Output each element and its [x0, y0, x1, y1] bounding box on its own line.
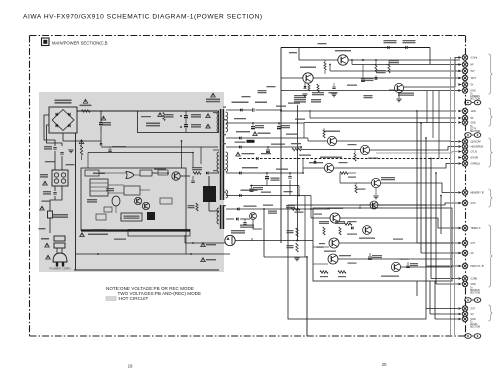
resistor R573 bottom	[320, 271, 328, 274]
wire bundle vertical 1	[416, 111, 418, 243]
label primary L501b	[66, 164, 75, 165]
label Q554 pins	[348, 144, 357, 145]
label left caps	[242, 96, 251, 97]
section label box	[42, 38, 50, 46]
label Q565 KTC4278	[398, 93, 414, 94]
rail gnd wire	[226, 208, 330, 210]
wire line filter feed A	[54, 151, 56, 170]
connector pin 5V	[458, 83, 461, 86]
frame border right	[465, 36, 467, 337]
label top rail C	[289, 52, 297, 53]
wire bottom box internal	[313, 246, 329, 248]
resistor R555	[292, 148, 301, 151]
connector pin CTL'B	[458, 150, 461, 153]
label pin 9	[223, 107, 226, 108]
rail pin9 continue	[256, 109, 281, 111]
wire bundle vertical 6	[440, 196, 442, 235]
svg-text:5V: 5V	[471, 85, 474, 87]
transistor Q560	[324, 163, 333, 172]
label aux parts	[240, 225, 254, 226]
inner box timer section	[313, 208, 452, 281]
aux cap C570	[244, 219, 246, 222]
connector pin GV	[458, 313, 461, 316]
label PW01	[41, 238, 49, 240]
svg-text:PWR CTL 'B': PWR CTL 'B'	[471, 266, 485, 268]
top rail wire	[281, 47, 430, 49]
wire Q551 collector	[281, 77, 303, 79]
wire mid bus 1	[307, 138, 309, 141]
label snubber D551	[146, 123, 160, 125]
pin group brace 1	[489, 54, 493, 94]
diode D561 top rail	[387, 46, 389, 49]
wire photocoupler to secondary	[235, 240, 252, 242]
transistor Q573	[391, 262, 400, 271]
label C555 10/16R4	[271, 144, 285, 145]
winding box gnd	[310, 196, 312, 210]
wire branch down C506	[100, 111, 102, 122]
label D565 PL/PV-LT	[232, 102, 249, 104]
wire control inner extra	[108, 192, 124, 194]
label Q562 KTC3203	[327, 208, 343, 209]
label FR01 T1.6A250V	[52, 214, 68, 216]
comb vertical b	[432, 91, 434, 138]
wire mid vertical d	[304, 196, 306, 258]
diode D562 top rail	[405, 46, 407, 49]
wire bundle vertical 2	[420, 123, 422, 253]
resistor R561	[375, 64, 377, 73]
aux transistor Q506	[250, 213, 257, 220]
label Q551	[300, 67, 316, 68]
dark component	[147, 212, 155, 220]
label rail5 parts2	[284, 191, 293, 192]
wire q559 emitter gvs	[378, 203, 458, 205]
label Q560	[309, 162, 323, 163]
label R559	[347, 85, 357, 86]
label Q570 pins	[319, 243, 325, 244]
label Q560 pins	[339, 162, 348, 163]
wire FET source	[208, 202, 210, 211]
frame border top	[30, 35, 466, 37]
transistor Q551	[303, 73, 313, 83]
label D501	[55, 100, 72, 102]
svg-text:GVT: GVT	[471, 309, 476, 311]
svg-text:GND: GND	[471, 319, 476, 321]
svg-text::HOT CIRCUIT: :HOT CIRCUIT	[118, 296, 149, 301]
svg-text:33VT: 33VT	[471, 78, 477, 80]
capacitor C552 snubber	[184, 115, 188, 117]
zener D564	[313, 161, 316, 163]
wire q571 emitter	[338, 258, 452, 260]
label D568	[244, 206, 257, 207]
board connector ovals 5	[465, 298, 472, 303]
connector pin GND	[458, 89, 461, 92]
wire secondary mid vertical	[297, 105, 299, 241]
label pin 10	[223, 169, 226, 170]
ground Q551 base	[302, 93, 307, 95]
wire 5.2Vtb drop	[429, 63, 431, 65]
svg-text:MEMORY 'B': MEMORY 'B'	[471, 193, 485, 195]
wire bundle vertical 5	[435, 173, 437, 284]
ground frame primary	[68, 149, 73, 151]
capacitor C563	[362, 64, 364, 78]
outer box audio section	[288, 205, 426, 319]
svg-text:20: 20	[382, 362, 387, 367]
wire secondary rail box	[138, 111, 219, 133]
transistor Q559	[370, 201, 378, 209]
label C5xx 74.5B	[286, 205, 295, 206]
label box Q573	[393, 239, 403, 240]
warning triangle PW01	[45, 243, 50, 247]
resistor R551	[317, 84, 319, 92]
label C510 400V	[112, 146, 126, 147]
transistor Q562	[330, 213, 340, 223]
wire HV rail horizontal	[76, 140, 102, 142]
wire bottom long vertical	[306, 257, 308, 336]
misc control parts	[87, 199, 97, 200]
resistor R511 source	[196, 203, 198, 211]
svg-text:GV: GV	[471, 314, 475, 316]
connector pin (TAPE)(-)	[458, 162, 461, 165]
ground R572	[294, 257, 299, 259]
label primary C503	[45, 161, 55, 162]
wire sensor pins	[416, 281, 418, 296]
wire bridge output	[77, 110, 219, 112]
label C504	[43, 191, 51, 192]
label Q554 part2	[368, 158, 378, 159]
pin group brace 2	[489, 108, 493, 126]
wire filter to fuse	[50, 186, 62, 211]
wire q561 base drop	[375, 188, 377, 195]
transistor Q570	[329, 238, 339, 248]
resistor R558	[354, 153, 356, 161]
diode D565	[240, 108, 242, 111]
svg-text:GND: GND	[471, 123, 476, 125]
warning triangle C557	[236, 152, 241, 156]
wire r571 tap	[296, 240, 298, 242]
winding box 12-10	[302, 159, 304, 174]
label control under1	[114, 239, 126, 240]
wire line filter feed B	[61, 156, 63, 170]
warning triangle C556	[253, 132, 258, 136]
capacitor C506	[99, 122, 103, 124]
comb vertical c	[438, 91, 440, 159]
label D554 base parts	[294, 95, 306, 96]
wire Q565 emitter to pin	[404, 58, 460, 87]
resistor R572	[296, 243, 298, 252]
wire control right vertical 3	[200, 147, 202, 164]
node snubber	[180, 115, 182, 117]
label Q559 part	[314, 214, 322, 215]
transformer primary pins	[213, 149, 219, 151]
connector pin (F)V(P)	[458, 156, 461, 159]
capacitor C510	[192, 176, 194, 180]
connector pin GND	[458, 283, 461, 286]
warning triangle T501	[211, 93, 216, 97]
resistor R551b	[308, 84, 310, 91]
vertical resistor R503	[158, 113, 163, 117]
wire bundle vertical 3	[425, 138, 427, 266]
wire Q562 collector	[311, 217, 330, 219]
label C554	[329, 92, 338, 93]
diode D555	[239, 145, 241, 148]
gray cable vertical 1	[450, 57, 452, 335]
transistor Q552	[338, 55, 348, 65]
label R565	[389, 60, 399, 61]
label transformer pin2	[213, 170, 217, 171]
label rail10 parts	[276, 169, 288, 170]
label C552	[191, 114, 201, 115]
wire rail10 cap drop a	[266, 180, 268, 186]
diode D559	[239, 171, 241, 174]
logic box A	[140, 170, 152, 176]
transformer aux winding	[217, 208, 219, 212]
wire control right vertical 2	[192, 153, 194, 169]
winding box 11-7	[303, 123, 305, 138]
connector pin 12VA	[458, 110, 461, 113]
label rail3 parts	[263, 205, 273, 206]
wire Q565 base	[389, 89, 394, 91]
label C515 AF CIRCUIT	[80, 233, 85, 237]
wire q573 emitter	[401, 266, 452, 268]
label rail9 parts	[276, 106, 286, 107]
wire control top feed	[100, 130, 102, 143]
dashed rail (two-voltage)	[239, 158, 450, 160]
wire Q551 emitter	[313, 77, 460, 79]
label Q572 NEC4558	[359, 238, 375, 239]
transistor Q553	[327, 136, 336, 145]
resistor R565	[388, 64, 390, 73]
wire bridge AC input left	[44, 115, 55, 146]
rail pin9 wire	[226, 109, 252, 111]
wire Q562 emitter	[340, 218, 458, 228]
connector pin TIMER 'A'	[458, 227, 461, 230]
warning triangle R502	[83, 99, 88, 103]
label pin 3	[223, 205, 226, 206]
note hot circuit swatch	[106, 297, 116, 301]
label rail9 parts2	[288, 103, 300, 104]
wire control bottom rail	[76, 253, 194, 255]
wire control internal 1	[99, 172, 126, 174]
wire aux bottom	[193, 253, 230, 255]
wire NF2 line	[310, 117, 456, 119]
warning triangle plug	[46, 255, 51, 259]
wire control internal 2	[152, 172, 168, 174]
label rail11 parts	[234, 118, 246, 119]
svg-text:AIWA HV-FX970/GX910 SCHEMATIC: AIWA HV-FX970/GX910 SCHEMATIC DIAGRAM-1(…	[23, 14, 263, 21]
label pin 12	[223, 143, 226, 144]
label rail12 parts	[235, 142, 246, 143]
capacitor C501 across line	[53, 147, 56, 149]
wire fuse to inlet	[49, 218, 51, 233]
control block outline IC501	[81, 168, 186, 230]
wire audio pins 3	[435, 318, 458, 320]
label box Q572	[347, 234, 357, 235]
wire Q552 emitter	[348, 59, 460, 61]
pin group brace 6	[489, 305, 493, 321]
svg-text:GVT: GVT	[471, 243, 476, 245]
svg-text:MAIN/POWER SECTION(C.B: MAIN/POWER SECTION(C.B	[52, 41, 108, 46]
label D562	[403, 40, 416, 41]
label C5xx bottom	[268, 211, 277, 212]
warning triangle L501	[43, 181, 48, 185]
resistor R568	[291, 208, 300, 211]
label R566	[377, 70, 386, 71]
svg-text:GND: GND	[471, 91, 476, 93]
svg-text:(4)5VDRUM: (4)5VDRUM	[471, 147, 484, 149]
transistor Q503 driver	[172, 172, 180, 180]
svg-text:(F)V(P): (F)V(P)	[471, 158, 479, 160]
series capacitor C565	[251, 108, 253, 111]
rail mid wire	[250, 185, 299, 187]
connector pin (2)5VCAP	[458, 140, 461, 143]
board connector ovals 1	[465, 100, 472, 105]
label R553	[311, 99, 321, 100]
label Q561 C562	[381, 177, 395, 178]
zener D554	[303, 86, 306, 88]
connector pin 5.2Vtb	[458, 56, 461, 59]
junction dots rails	[252, 122, 254, 124]
wire control bottom rail 2	[185, 230, 187, 254]
label PC501	[231, 230, 245, 231]
photocoupler PC501	[225, 235, 235, 245]
label Q554 KTC4407Y	[320, 157, 342, 158]
label rail12 parts2	[291, 143, 301, 144]
left secondary bus	[280, 48, 282, 244]
warning triangle C506	[101, 116, 106, 120]
connector pin MEMORY 'B'	[458, 191, 461, 194]
label IC501	[93, 173, 105, 175]
wire Q560 collector	[303, 167, 324, 169]
capacitor C562 rail	[278, 123, 280, 126]
photo junction	[167, 172, 169, 174]
connector pin NF	[458, 117, 461, 120]
label rail5 parts	[261, 192, 271, 193]
wire Q552 collector	[299, 59, 338, 61]
label C553	[191, 124, 201, 125]
diode D556	[239, 136, 241, 139]
label rail3 parts2	[295, 212, 304, 213]
label Q571 C571	[339, 255, 351, 256]
wire photocoupler line	[252, 240, 313, 242]
rail pin12 wire	[226, 146, 302, 148]
wire Q553 emitter	[337, 140, 450, 142]
label box Q571 part	[348, 263, 357, 264]
label dashed rail parts	[299, 155, 311, 156]
transistor Q571	[328, 254, 338, 264]
wire q559 collector	[330, 208, 366, 210]
wire bundle vertical 4	[430, 159, 432, 279]
svg-text:CDTV: CDTV	[470, 129, 477, 131]
wire Q554 emitter	[370, 147, 458, 151]
aux wire down	[253, 219, 262, 229]
wire primary return	[209, 171, 219, 173]
capacitor C561 rail	[252, 123, 254, 126]
label D561	[384, 40, 397, 41]
connector pin GND	[458, 318, 461, 321]
wire ctl line	[376, 152, 458, 154]
label rail7 parts	[286, 134, 298, 135]
resistor R552 base	[324, 62, 326, 70]
wire primary HV rail down	[75, 133, 77, 270]
label DR505	[154, 169, 166, 170]
resistor R571	[296, 228, 298, 237]
connector pin PWR CTL 'B'	[458, 265, 461, 268]
label D560 PL/GFU6BL	[241, 190, 258, 191]
label D556	[236, 131, 250, 132]
diode D571	[351, 226, 353, 229]
wire audio pins 2	[430, 313, 458, 315]
label rail11 parts2	[295, 119, 305, 120]
wire audio pins 1	[426, 308, 458, 310]
timer latch box	[121, 213, 142, 221]
diode D563	[374, 77, 377, 79]
wire Q565 collector	[398, 93, 400, 98]
capacitor C555 big	[267, 147, 269, 149]
comb vertical a	[426, 91, 428, 123]
board connector ovals 6	[465, 334, 472, 339]
or gate	[126, 172, 134, 179]
wire snubber return	[101, 146, 218, 148]
svg-text:CTL'B: CTL'B	[471, 152, 478, 154]
label snubber extra	[141, 116, 151, 117]
label T501	[206, 99, 220, 101]
wire driver to FET	[180, 175, 190, 177]
converter block bottom edge	[74, 269, 219, 271]
comparator stack IC501	[90, 179, 108, 196]
connector pin GVT	[458, 307, 461, 310]
label CN571	[324, 251, 336, 252]
pin group brace 4	[489, 189, 493, 207]
wire aux feedback	[185, 242, 226, 244]
control block bottom heavy line	[81, 229, 190, 231]
svg-text:GND: GND	[471, 284, 476, 286]
wire rail10 cap drop b	[289, 180, 291, 196]
label C561 column b	[267, 86, 276, 87]
capacitor C573	[407, 262, 409, 265]
inlet block PW01 upper	[54, 236, 65, 241]
wire 5V line	[281, 90, 460, 92]
capacitor C572	[369, 253, 371, 256]
label R571	[287, 230, 294, 231]
resistor R564 base	[344, 223, 352, 226]
warning triangle aux2	[201, 258, 206, 262]
fusible resistor R502	[82, 110, 91, 113]
connector pin GVS	[458, 202, 461, 205]
label R572	[287, 245, 294, 246]
wire rail12 to Q554	[301, 149, 361, 151]
svg-text:TWO VOLTAGES:PB AND-(REC) MODE: TWO VOLTAGES:PB AND-(REC) MODE	[118, 291, 202, 296]
warning triangle snubber	[206, 114, 211, 118]
connector pin NF	[458, 63, 461, 66]
diode D557 on dashed rail	[256, 157, 258, 160]
label box Q570 pin	[317, 247, 324, 248]
gray cable vertical 2	[454, 64, 456, 335]
board connector ovals 2	[465, 133, 472, 138]
label L565	[255, 102, 267, 104]
wire bridge negative to rail	[62, 133, 64, 141]
label C559 PCY7U6L	[242, 167, 258, 168]
svg-text:SENSOR: SENSOR	[470, 290, 480, 292]
pin group brace 3	[489, 138, 493, 167]
label C560 1/50	[271, 178, 280, 179]
wire bridge AC input right	[47, 125, 63, 146]
transformer secondary winding	[226, 112, 228, 116]
flat box below control	[128, 230, 190, 237]
label control inner extra	[158, 170, 168, 175]
wire Q553 collector	[308, 140, 327, 142]
connector pin GF	[458, 252, 461, 255]
capacitor C559 rail	[266, 173, 268, 176]
